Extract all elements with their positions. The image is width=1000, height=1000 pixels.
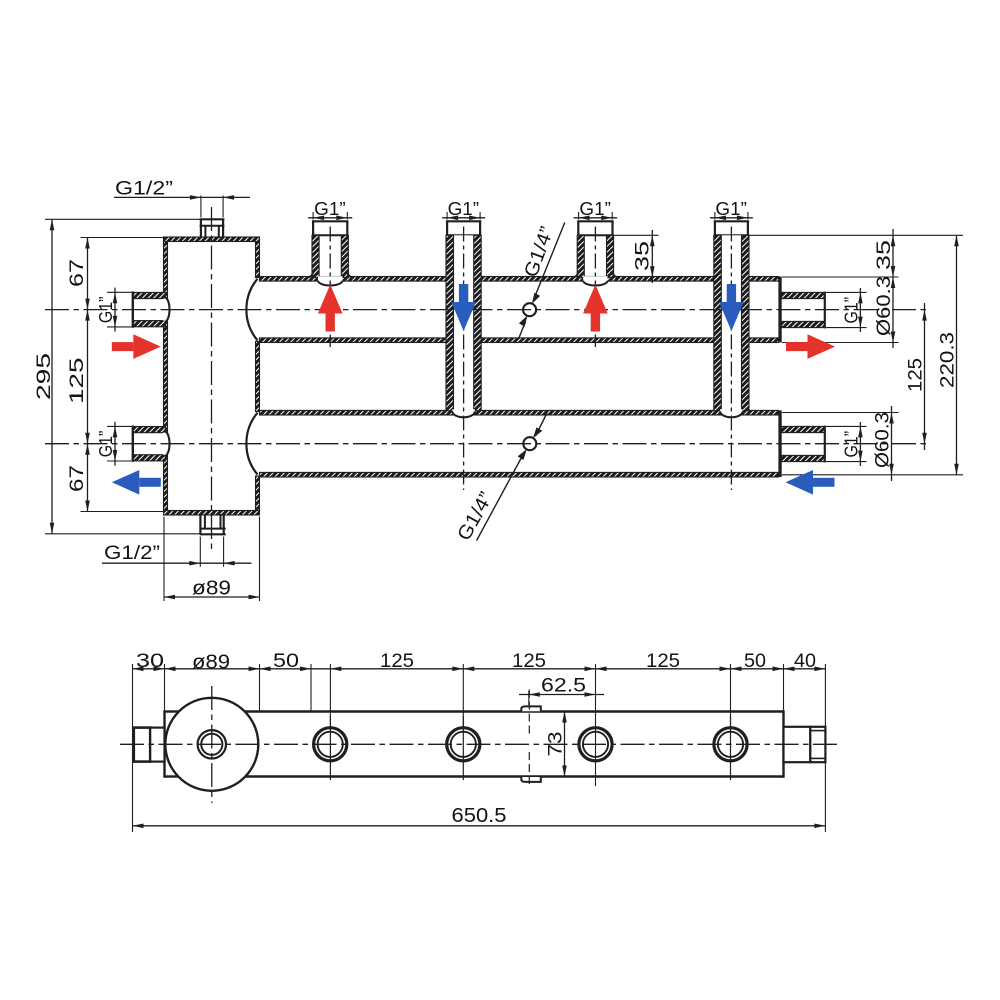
svg-text:G1/2”: G1/2” <box>104 542 160 564</box>
svg-text:125: 125 <box>380 650 414 672</box>
svg-text:ø89: ø89 <box>192 578 231 600</box>
svg-text:73: 73 <box>545 732 567 757</box>
svg-text:125: 125 <box>66 357 88 404</box>
svg-text:G1”: G1” <box>841 431 862 458</box>
svg-text:ø89: ø89 <box>192 652 230 674</box>
svg-text:67: 67 <box>66 259 88 287</box>
svg-text:35: 35 <box>632 241 654 271</box>
svg-text:62.5: 62.5 <box>541 675 586 697</box>
svg-text:Ø60.3: Ø60.3 <box>873 276 895 336</box>
svg-text:G1”: G1” <box>448 198 480 219</box>
svg-text:G1”: G1” <box>95 297 116 324</box>
svg-text:G1”: G1” <box>579 198 611 219</box>
svg-text:G1”: G1” <box>841 297 862 324</box>
svg-text:50: 50 <box>744 650 766 672</box>
svg-text:125: 125 <box>512 650 546 672</box>
svg-text:125: 125 <box>905 358 927 392</box>
svg-text:650.5: 650.5 <box>452 804 507 827</box>
svg-text:125: 125 <box>646 650 680 672</box>
svg-text:295: 295 <box>33 353 55 400</box>
svg-text:G1”: G1” <box>314 198 346 219</box>
svg-text:30: 30 <box>136 650 164 672</box>
svg-text:40: 40 <box>794 650 816 672</box>
svg-text:G1”: G1” <box>95 431 116 458</box>
svg-text:G1”: G1” <box>715 198 747 219</box>
svg-text:220.3: 220.3 <box>937 332 959 388</box>
svg-text:G1/2”: G1/2” <box>115 178 173 200</box>
svg-text:35: 35 <box>873 240 895 270</box>
svg-text:67: 67 <box>66 465 88 492</box>
svg-text:50: 50 <box>273 650 299 672</box>
svg-text:Ø60.3: Ø60.3 <box>872 412 894 468</box>
